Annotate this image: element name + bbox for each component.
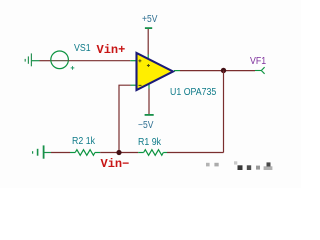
label U1 OPA735: [170, 88, 216, 98]
power label +5V: [142, 15, 157, 25]
node label Vin-: [101, 159, 130, 169]
wire +5V rail down to op-amp: [147, 29, 149, 55]
wire VS1 chord: [51, 60, 69, 62]
pin stub noninverting input: [130, 60, 136, 62]
node label VF1: [250, 57, 266, 67]
pin VF1 (lead + open jaw): [255, 67, 265, 74]
pin stub V-: [148, 84, 150, 89]
voltage source VS1 (circle): [51, 51, 69, 69]
label R1 9k: [138, 138, 161, 148]
op-amp V+ supply marker: [147, 64, 150, 67]
op-amp - input marker: [139, 84, 142, 86]
wire op-amp to -5V rail: [148, 89, 150, 115]
VS1 plus marker: [71, 66, 75, 70]
resistor R2 1k: [70, 150, 100, 156]
jumper bar -5V: [145, 114, 154, 116]
wire output junction down: [223, 71, 225, 153]
wire output to VF1: [180, 70, 255, 72]
pin stub output: [174, 70, 180, 72]
pin stub V+: [147, 55, 149, 60]
resistor R1 9k: [138, 150, 167, 156]
wire inverting input feedback (left then down): [119, 85, 131, 152]
node junction Vin-: [116, 150, 121, 155]
op-amp + input marker: [138, 59, 141, 62]
ground GND1 (top-left, rotated bars): [25, 53, 31, 66]
label R2 1k: [72, 137, 95, 147]
power label -5V: [138, 121, 153, 131]
node label Vin+: [97, 45, 126, 55]
wire ground1 to VS1: [31, 60, 39, 62]
watermark squares bottom-right: [206, 161, 272, 170]
wire VS1 to op-amp noninverting input: [69, 60, 131, 62]
ground GND2 (bottom-left, rotated bars): [33, 145, 44, 158]
op-amp U1 triangle: [137, 53, 174, 90]
jumper bar +5V: [145, 27, 152, 29]
wire ground2 to R2: [44, 152, 51, 154]
pin stub inverting input: [131, 84, 137, 86]
node junction on output: [221, 68, 226, 73]
wire bottom right up-corner to R1: [167, 152, 224, 154]
label VS1: [74, 44, 91, 54]
wire R2 to R1 through node: [100, 152, 138, 154]
